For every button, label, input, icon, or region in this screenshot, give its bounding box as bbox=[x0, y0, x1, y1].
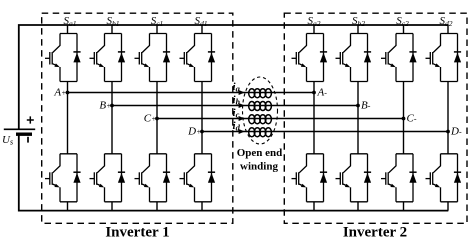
node D+ bbox=[200, 130, 204, 134]
node B- bbox=[356, 104, 360, 108]
svg-text:Inverter 2: Inverter 2 bbox=[343, 224, 407, 238]
inductor coil phase D bbox=[249, 128, 272, 137]
IGBT switch Sc2 top bbox=[381, 34, 417, 82]
inductor coil phase C bbox=[249, 115, 272, 124]
svg-text:winding: winding bbox=[240, 161, 278, 173]
inductor coil phase A bbox=[249, 89, 272, 98]
svg-text:A+: A+ bbox=[53, 86, 66, 98]
node D- bbox=[446, 130, 450, 134]
IGBT switch Sc1 bottom bbox=[135, 154, 171, 202]
svg-text:ia: ia bbox=[233, 81, 241, 94]
svg-text:B-: B- bbox=[361, 99, 371, 111]
svg-text:ib: ib bbox=[233, 94, 240, 107]
wire: leg c1 verticals bbox=[156, 25, 158, 211]
wire: leg d1 verticals bbox=[201, 25, 203, 211]
current arrow ia bbox=[239, 90, 245, 95]
current arrow ib bbox=[239, 103, 245, 108]
wire: leg c2 verticals bbox=[403, 25, 405, 211]
svg-text:Open end: Open end bbox=[237, 147, 283, 159]
IGBT switch Sb1 top bbox=[90, 34, 126, 82]
svg-text:C+: C+ bbox=[144, 112, 157, 124]
svg-text:C-: C- bbox=[407, 112, 417, 124]
IGBT switch Sd2 top bbox=[426, 34, 462, 82]
IGBT switch Sb1 bottom bbox=[90, 154, 126, 202]
wire: phase line B bbox=[112, 105, 358, 107]
current arrow id bbox=[239, 129, 245, 134]
svg-text:B+: B+ bbox=[99, 99, 111, 111]
svg-text:A-: A- bbox=[317, 86, 328, 98]
IGBT switch Sd2 bottom bbox=[426, 154, 462, 202]
IGBT switch Sa2 top bbox=[292, 34, 328, 82]
wire: phase line A bbox=[68, 92, 315, 94]
dashed box Inverter 1 bbox=[42, 13, 233, 223]
IGBT switch Sc1 top bbox=[135, 34, 171, 82]
IGBT switch Sa1 bottom bbox=[45, 154, 81, 202]
label Open end winding bbox=[237, 147, 283, 173]
IGBT switch Sa2 bottom bbox=[292, 154, 328, 202]
node B+ bbox=[110, 104, 114, 108]
wire: leg b1 verticals bbox=[111, 25, 113, 211]
wire: negative DC bus bbox=[19, 134, 449, 211]
current arrow ic bbox=[239, 116, 245, 121]
wire: leg a1 verticals bbox=[67, 25, 69, 211]
node C+ bbox=[155, 117, 159, 121]
svg-text:ic: ic bbox=[233, 107, 240, 120]
inductor coil phase B bbox=[249, 102, 272, 111]
IGBT switch Sd1 top bbox=[180, 34, 216, 82]
svg-text:id: id bbox=[233, 120, 241, 133]
svg-text:Inverter 1: Inverter 1 bbox=[105, 224, 169, 238]
wire: positive DC bus bbox=[19, 25, 449, 129]
IGBT switch Sb2 top bbox=[336, 34, 372, 82]
dashed ellipse: open end winding bbox=[243, 77, 278, 144]
node A+ bbox=[66, 91, 70, 95]
wire: leg b2 verticals bbox=[357, 25, 359, 211]
IGBT switch Sd1 bottom bbox=[180, 154, 216, 202]
dashed box Inverter 2 bbox=[284, 13, 467, 223]
IGBT switch Sb2 bottom bbox=[336, 154, 372, 202]
node C- bbox=[402, 117, 406, 121]
IGBT switch Sc2 bottom bbox=[381, 154, 417, 202]
wire: leg a2 verticals bbox=[313, 25, 315, 211]
IGBT switch Sa1 top bbox=[45, 34, 81, 82]
wire: leg d2 verticals bbox=[447, 25, 449, 211]
wire: phase line D bbox=[202, 131, 448, 133]
battery Us bbox=[4, 116, 35, 142]
svg-text:D-: D- bbox=[450, 125, 462, 137]
wire: phase line C bbox=[157, 118, 404, 120]
node A- bbox=[312, 91, 316, 95]
svg-text:D+: D+ bbox=[187, 125, 201, 137]
